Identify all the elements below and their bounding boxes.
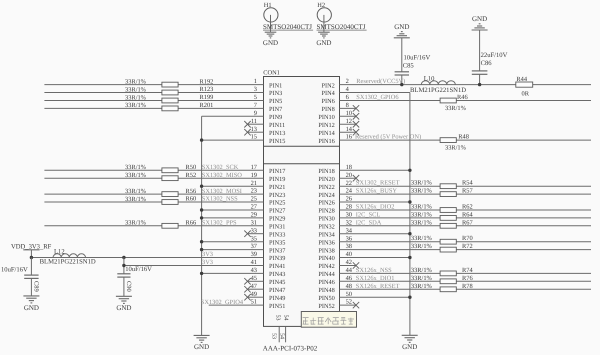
svg-text:SX1302_PPS: SX1302_PPS	[202, 220, 237, 227]
svg-text:SX126x_DIO2: SX126x_DIO2	[356, 204, 395, 211]
svg-text:BLM21PG221SN1D: BLM21PG221SN1D	[410, 87, 466, 94]
svg-text:PIN8: PIN8	[322, 106, 335, 113]
svg-text:30: 30	[346, 212, 352, 219]
svg-text:33R/1%: 33R/1%	[411, 211, 433, 218]
svg-text:10uF/16V: 10uF/16V	[404, 54, 431, 61]
svg-text:19: 19	[251, 172, 257, 179]
svg-text:R52: R52	[186, 172, 197, 179]
svg-text:I2C_SCL: I2C_SCL	[356, 211, 381, 218]
svg-text:33R/1%: 33R/1%	[411, 180, 433, 187]
svg-text:R48: R48	[458, 134, 469, 141]
svg-text:PIN3: PIN3	[269, 90, 282, 97]
svg-text:R201: R201	[200, 102, 214, 109]
svg-text:5: 5	[254, 94, 257, 101]
svg-text:L12: L12	[54, 248, 65, 255]
svg-text:3: 3	[254, 86, 257, 93]
svg-text:R72: R72	[462, 243, 473, 250]
svg-text:SX1302_GPIO6: SX1302_GPIO6	[356, 94, 398, 101]
svg-text:10uF/16V: 10uF/16V	[1, 266, 28, 273]
svg-text:41: 41	[251, 259, 257, 266]
svg-text:SX126x_DIO1: SX126x_DIO1	[356, 275, 395, 282]
svg-text:R67: R67	[462, 219, 473, 226]
svg-text:PIN17: PIN17	[269, 168, 285, 175]
svg-text:GND: GND	[316, 39, 331, 47]
svg-text:43: 43	[251, 267, 257, 274]
svg-text:R66: R66	[186, 220, 197, 227]
svg-text:3V3: 3V3	[202, 259, 213, 266]
svg-text:17: 17	[251, 164, 258, 171]
svg-text:3V3: 3V3	[202, 251, 213, 258]
svg-text:PIN42: PIN42	[318, 263, 334, 270]
svg-text:54: 54	[283, 315, 289, 321]
svg-text:33R/1%: 33R/1%	[125, 164, 147, 171]
svg-text:PIN16: PIN16	[318, 138, 334, 145]
svg-text:PIN1: PIN1	[269, 82, 282, 89]
svg-text:50: 50	[346, 291, 352, 298]
svg-text:GND: GND	[116, 304, 131, 312]
svg-text:53: 53	[270, 333, 276, 339]
svg-text:SX1302_GPIO4: SX1302_GPIO4	[201, 299, 244, 306]
svg-text:PIN13: PIN13	[269, 130, 285, 137]
svg-text:PIN4: PIN4	[322, 90, 336, 97]
svg-text:R46: R46	[457, 94, 468, 101]
svg-text:PIN19: PIN19	[269, 176, 285, 183]
svg-text:PIN24: PIN24	[318, 192, 335, 199]
svg-text:PIN43: PIN43	[269, 271, 285, 278]
svg-text:39: 39	[251, 251, 257, 258]
svg-text:33R/1%: 33R/1%	[411, 267, 433, 274]
svg-text:PIN27: PIN27	[269, 208, 285, 215]
svg-text:R76: R76	[462, 275, 473, 282]
svg-text:PIN52: PIN52	[318, 303, 334, 310]
svg-text:PIN5: PIN5	[269, 98, 282, 105]
svg-text:28: 28	[346, 204, 352, 211]
svg-text:PIN39: PIN39	[269, 255, 285, 262]
svg-text:51: 51	[251, 299, 257, 306]
svg-text:Reserved (5V Power ON): Reserved (5V Power ON)	[355, 134, 421, 141]
svg-text:18: 18	[346, 164, 352, 171]
svg-text:PIN34: PIN34	[318, 231, 335, 238]
svg-text:33R/1%: 33R/1%	[445, 105, 467, 112]
svg-text:11: 11	[251, 118, 257, 125]
svg-text:R50: R50	[186, 164, 197, 171]
svg-text:49: 49	[251, 291, 257, 298]
svg-text:9: 9	[254, 110, 257, 117]
svg-text:PIN47: PIN47	[269, 287, 285, 294]
svg-text:22uF/10V: 22uF/10V	[481, 52, 508, 59]
svg-text:8: 8	[346, 102, 349, 109]
svg-text:33R/1%: 33R/1%	[411, 188, 433, 195]
svg-text:PIN41: PIN41	[269, 263, 285, 270]
svg-text:37: 37	[251, 243, 258, 250]
svg-text:33R/1%: 33R/1%	[445, 145, 467, 152]
svg-text:R192: R192	[200, 78, 214, 85]
svg-text:33R/1%: 33R/1%	[411, 275, 433, 282]
svg-text:33R/1%: 33R/1%	[125, 102, 147, 109]
svg-text:PIN28: PIN28	[318, 208, 334, 215]
svg-text:R70: R70	[462, 235, 473, 242]
svg-text:PIN51: PIN51	[269, 303, 285, 310]
svg-text:PIN46: PIN46	[318, 279, 334, 286]
svg-text:SX1302_MOSI: SX1302_MOSI	[202, 188, 242, 195]
svg-text:PIN32: PIN32	[318, 224, 334, 231]
svg-text:GND: GND	[394, 23, 409, 31]
svg-text:R78: R78	[462, 283, 473, 290]
svg-text:33R/1%: 33R/1%	[411, 243, 433, 250]
svg-text:C86: C86	[481, 60, 493, 67]
svg-text:PIN11: PIN11	[269, 122, 285, 129]
svg-text:R64: R64	[462, 211, 473, 218]
svg-text:PIN22: PIN22	[318, 184, 334, 191]
svg-text:R57: R57	[462, 188, 473, 195]
svg-text:PIN44: PIN44	[318, 271, 335, 278]
svg-text:32: 32	[346, 219, 352, 226]
svg-text:33R/1%: 33R/1%	[125, 94, 147, 101]
svg-text:33R/1%: 33R/1%	[125, 188, 147, 195]
svg-text:33R/1%: 33R/1%	[125, 172, 147, 179]
svg-text:R123: R123	[200, 86, 214, 93]
svg-text:24: 24	[346, 188, 353, 195]
svg-text:20: 20	[346, 172, 352, 179]
svg-text:1: 1	[254, 78, 257, 85]
svg-text:33R/1%: 33R/1%	[411, 235, 433, 242]
svg-text:PIN48: PIN48	[318, 287, 334, 294]
svg-text:H2: H2	[317, 2, 325, 9]
svg-text:33R/1%: 33R/1%	[125, 196, 147, 203]
svg-text:PIN18: PIN18	[318, 168, 334, 175]
svg-text:SX1302_SCK: SX1302_SCK	[202, 164, 239, 171]
svg-text:PIN29: PIN29	[269, 216, 285, 223]
svg-text:21: 21	[251, 180, 257, 187]
svg-text:33: 33	[251, 227, 257, 234]
svg-text:52: 52	[346, 299, 352, 306]
svg-text:45: 45	[251, 275, 257, 282]
svg-text:SX1302_MISO: SX1302_MISO	[202, 172, 243, 179]
svg-text:C85: C85	[403, 62, 415, 69]
svg-text:2: 2	[346, 78, 349, 85]
svg-text:Reserved(VCC5V): Reserved(VCC5V)	[356, 78, 405, 85]
svg-text:14: 14	[346, 126, 353, 133]
svg-text:SX126x_BUSY: SX126x_BUSY	[356, 188, 398, 195]
svg-text:47: 47	[251, 283, 258, 290]
svg-text:6: 6	[346, 94, 349, 101]
svg-text:GND: GND	[402, 343, 417, 351]
svg-text:PIN26: PIN26	[318, 200, 334, 207]
svg-text:36: 36	[346, 235, 352, 242]
svg-text:PIN23: PIN23	[269, 192, 285, 199]
svg-text:SX1302_NSS: SX1302_NSS	[202, 196, 238, 203]
svg-text:GND: GND	[24, 304, 39, 312]
svg-text:33R/1%: 33R/1%	[411, 219, 433, 226]
svg-text:I2C_SDA: I2C_SDA	[356, 219, 382, 226]
svg-text:12: 12	[346, 118, 352, 125]
svg-text:R60: R60	[186, 196, 197, 203]
svg-text:27: 27	[251, 204, 258, 211]
svg-text:AAA-PCI-073-P02: AAA-PCI-073-P02	[263, 344, 318, 352]
svg-text:23: 23	[251, 188, 257, 195]
svg-text:25: 25	[251, 196, 257, 203]
svg-text:C90: C90	[125, 281, 132, 292]
svg-text:PIN50: PIN50	[318, 295, 334, 302]
svg-text:R199: R199	[200, 94, 214, 101]
svg-text:R56: R56	[186, 188, 197, 195]
svg-text:33R/1%: 33R/1%	[125, 86, 147, 93]
svg-text:PIN15: PIN15	[269, 138, 285, 145]
svg-text:SX1302_RESET: SX1302_RESET	[356, 180, 400, 187]
svg-text:42: 42	[346, 259, 352, 266]
svg-text:PIN45: PIN45	[269, 279, 285, 286]
svg-text:C89: C89	[33, 281, 40, 292]
svg-text:PIN7: PIN7	[269, 106, 282, 113]
svg-text:26: 26	[346, 196, 352, 203]
svg-text:PIN10: PIN10	[318, 114, 334, 121]
svg-text:L10: L10	[424, 75, 435, 82]
svg-text:40: 40	[346, 251, 352, 258]
svg-text:H1: H1	[264, 2, 272, 9]
svg-text:13: 13	[251, 126, 257, 133]
svg-text:0R: 0R	[522, 91, 530, 98]
svg-text:33R/1%: 33R/1%	[125, 220, 147, 227]
svg-text:PIN49: PIN49	[269, 295, 285, 302]
svg-text:PIN9: PIN9	[269, 114, 282, 121]
svg-text:GND: GND	[263, 39, 278, 47]
svg-text:PIN25: PIN25	[269, 200, 285, 207]
svg-text:22: 22	[346, 180, 352, 187]
svg-text:R62: R62	[462, 204, 473, 211]
svg-text:35: 35	[251, 235, 257, 242]
svg-text:GND: GND	[194, 343, 209, 351]
svg-text:31: 31	[251, 219, 257, 226]
svg-text:SX126x_NSS: SX126x_NSS	[356, 267, 392, 274]
svg-text:CON1: CON1	[263, 70, 280, 77]
svg-text:29: 29	[251, 212, 257, 219]
svg-text:PIN21: PIN21	[269, 184, 285, 191]
svg-text:PIN37: PIN37	[269, 247, 285, 254]
svg-text:33R/1%: 33R/1%	[125, 78, 147, 85]
svg-text:PIN33: PIN33	[269, 231, 285, 238]
svg-text:48: 48	[346, 283, 352, 290]
svg-text:44: 44	[346, 267, 353, 274]
svg-text:R54: R54	[462, 180, 473, 187]
svg-text:53: 53	[274, 315, 280, 321]
svg-text:10uF/16V: 10uF/16V	[125, 266, 152, 273]
svg-text:33R/1%: 33R/1%	[411, 204, 433, 211]
svg-text:PIN35: PIN35	[269, 239, 285, 246]
svg-text:PIN20: PIN20	[318, 176, 334, 183]
svg-text:BLM21PG221SN1D: BLM21PG221SN1D	[40, 259, 96, 266]
svg-text:PIN12: PIN12	[318, 122, 334, 129]
svg-text:PIN2: PIN2	[322, 82, 335, 89]
svg-text:PIN36: PIN36	[318, 239, 334, 246]
svg-text:15: 15	[251, 134, 257, 141]
svg-text:PIN14: PIN14	[318, 130, 335, 137]
svg-text:38: 38	[346, 243, 352, 250]
svg-text:PIN6: PIN6	[322, 98, 335, 105]
svg-text:54: 54	[279, 333, 285, 339]
svg-text:PIN40: PIN40	[318, 255, 334, 262]
svg-text:R74: R74	[462, 267, 473, 274]
svg-text:16: 16	[346, 134, 352, 141]
svg-text:GND: GND	[472, 15, 487, 23]
svg-text:PIN30: PIN30	[318, 216, 334, 223]
svg-text:10: 10	[346, 110, 352, 117]
svg-text:46: 46	[346, 275, 352, 282]
svg-text:PIN38: PIN38	[318, 247, 334, 254]
svg-text:R44: R44	[516, 76, 527, 83]
svg-text:SX126x_RESET: SX126x_RESET	[356, 283, 400, 290]
svg-text:PIN31: PIN31	[269, 224, 285, 231]
svg-text:33R/1%: 33R/1%	[411, 283, 433, 290]
svg-text:34: 34	[346, 227, 353, 234]
